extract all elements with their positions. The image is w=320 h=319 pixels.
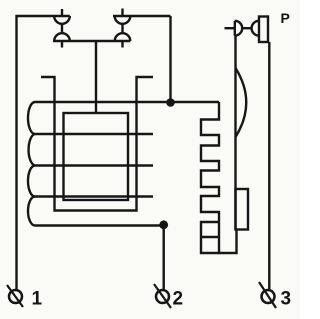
svg-text:P: P [281,10,290,26]
svg-text:3: 3 [281,289,292,310]
svg-text:2: 2 [173,289,184,310]
svg-text:1: 1 [32,289,43,310]
